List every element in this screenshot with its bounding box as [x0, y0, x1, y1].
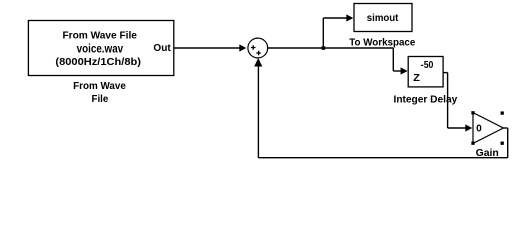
svg-text:Z: Z — [413, 73, 420, 84]
svg-text:From Wave File: From Wave File — [62, 30, 137, 41]
svg-text:Out: Out — [153, 43, 171, 54]
svg-text:simout: simout — [367, 13, 399, 24]
svg-text:From Wave: From Wave — [73, 81, 126, 92]
svg-text:-50: -50 — [421, 60, 434, 71]
svg-text:To Workspace: To Workspace — [349, 37, 415, 48]
svg-text:voice.wav: voice.wav — [77, 43, 124, 55]
svg-text:File: File — [92, 94, 109, 105]
svg-text:0: 0 — [476, 124, 482, 135]
svg-text:(8000Hz/1Ch/8b): (8000Hz/1Ch/8b) — [55, 57, 141, 68]
